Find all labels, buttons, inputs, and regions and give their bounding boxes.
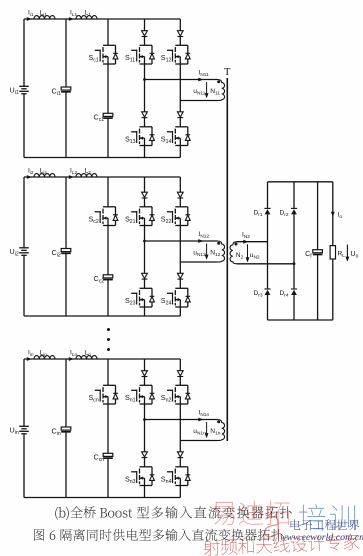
wire secondary bottom lead	[237, 263, 294, 265]
diode series D-n4	[177, 452, 183, 457]
wire S23 source to bottom rail	[144, 307, 146, 316]
wire S_c1 drain	[107, 19, 109, 45]
wire S_c2 source to C_c2	[107, 226, 109, 275]
inductor L_n	[76, 356, 97, 359]
diode D_r3	[264, 288, 270, 290]
current arrow I_i2	[27, 175, 32, 179]
wire top rail stage 2	[24, 176, 180, 178]
wire S21 source to node A2	[144, 226, 146, 242]
watermark slogan red diagonal	[203, 533, 359, 555]
wire S24 source to bottom rail	[179, 307, 181, 316]
current arrow I_N2	[243, 240, 248, 244]
transistor Sn3	[140, 466, 153, 468]
wire leg1 upper stage 2	[144, 177, 146, 192]
transformer core line T	[226, 78, 228, 441]
resistor R_L	[330, 246, 335, 259]
inductor L_in	[34, 356, 55, 359]
ellipsis dots between stages	[107, 328, 110, 331]
wire primary bottom lead stage n	[180, 440, 217, 442]
current arrow I_N1n	[198, 418, 203, 422]
junction secondary to leg D_r2/D_r4	[293, 262, 296, 265]
load resistor column R_L	[332, 182, 334, 246]
transistor Sc1	[103, 44, 116, 46]
watermark logo red letter a	[264, 516, 279, 538]
wire primary top lead stage n	[145, 419, 218, 421]
diode series D-21	[142, 192, 148, 197]
wire S_cn drain	[107, 359, 109, 385]
polarity dot N_11	[217, 80, 220, 83]
inductor L_1	[76, 16, 97, 19]
wire C_in column	[65, 359, 67, 427]
transistor Scn	[103, 384, 116, 386]
transistor S14	[175, 126, 188, 128]
voltage arrow u_N11	[206, 82, 208, 97]
transistor S13	[140, 126, 153, 128]
wire C_cn to bottom rail	[107, 458, 109, 497]
capacitor Cc1	[103, 113, 113, 116]
polarity dot N_2	[235, 243, 238, 246]
capacitor Ci2	[61, 249, 71, 252]
wire S_c2 drain	[107, 177, 109, 207]
wire leg D_r1/D_r3	[267, 182, 269, 209]
wire leg2 upper stage 1	[179, 19, 181, 31]
wire C_c1 to bottom rail	[107, 118, 109, 157]
wire Sn2 source to node Bn	[179, 404, 181, 441]
wire primary top lead stage 2	[145, 240, 218, 242]
wire S12 source to node B1	[179, 64, 181, 101]
diode series D-n1	[142, 371, 148, 376]
transformer primary winding N_12	[218, 241, 225, 262]
wire battery column stage 2	[23, 177, 25, 248]
current arrow I_Ln	[69, 357, 74, 361]
capacitor Cin	[61, 427, 71, 430]
capacitor Ccn	[103, 453, 113, 456]
wire Sn1 source to node An	[144, 404, 146, 420]
wire primary bottom lead stage 1	[180, 100, 217, 102]
wire battery column stage 1	[23, 19, 25, 86]
diode series D-23	[142, 273, 148, 278]
wire battery column stage n	[23, 359, 25, 426]
diode series D-24	[177, 273, 183, 278]
capacitor C_f column	[317, 182, 319, 250]
transistor Sn2	[175, 384, 188, 386]
diode D_r4	[291, 288, 297, 290]
wire leg1 lower stage 2	[144, 241, 146, 273]
wire secondary top lead	[237, 241, 268, 243]
inductor L_i2	[34, 174, 55, 177]
diode series D-n2	[177, 371, 183, 376]
caption line 2	[34, 529, 45, 541]
current arrow I_N12	[198, 239, 203, 243]
transistor S22	[175, 206, 188, 208]
wire primary top lead stage 1	[145, 79, 218, 81]
wire rectifier top rail	[268, 181, 333, 183]
wire rectifier bottom rail	[268, 319, 333, 321]
transistor S23	[140, 287, 153, 289]
wire S22 source to node B2	[179, 226, 181, 263]
watermark logo blue text	[299, 504, 325, 530]
transistor S12	[175, 44, 188, 46]
wire leg D_r2/D_r4	[293, 182, 295, 209]
voltage source Ui2	[19, 247, 29, 249]
wire Sn3 source to bottom rail	[144, 486, 146, 498]
wire leg1 lower stage 1	[144, 80, 146, 112]
diode series D-13	[142, 112, 148, 117]
polarity dot N_12	[217, 242, 220, 245]
wire leg2 lower stage 1	[179, 101, 181, 112]
caption line 1	[55, 507, 58, 520]
wire leg1 upper stage n	[144, 359, 146, 371]
capacitor Ci1	[61, 87, 71, 90]
transformer secondary winding N_2	[230, 242, 237, 264]
wire S14 source to bottom rail	[179, 146, 181, 158]
wire Sn4 source to bottom rail	[179, 486, 181, 498]
wire primary bottom lead stage 2	[180, 261, 217, 263]
wire S_cn source to C_cn	[107, 404, 109, 453]
current arrow I_o	[331, 212, 335, 217]
node An junction	[143, 418, 146, 421]
voltage arrow u_N1n	[206, 422, 208, 437]
diode series D-14	[177, 112, 183, 117]
current arrow I_L1	[69, 17, 74, 21]
wire S13 source to bottom rail	[144, 146, 146, 158]
transistor Sc2	[103, 206, 116, 208]
diode series D-12	[177, 31, 183, 36]
capacitor Cf	[313, 250, 323, 253]
transistor Sn4	[175, 466, 188, 468]
transformer primary winding N_11	[218, 80, 225, 101]
inductor L_i1	[34, 16, 55, 19]
diode series D-11	[142, 31, 148, 36]
svg-text:T: T	[224, 67, 231, 78]
watermark logo red text	[212, 502, 234, 525]
voltage source Uin	[19, 425, 29, 427]
current arrow I_in	[27, 357, 32, 361]
voltage source Ui1	[19, 85, 29, 87]
voltage arrow u_N12	[206, 244, 208, 259]
transistor S21	[140, 206, 153, 208]
transformer primary winding N_1n	[218, 420, 225, 441]
wire leg1 upper stage 1	[144, 19, 146, 31]
transistor Sn1	[140, 384, 153, 386]
diode series D-n3	[142, 452, 148, 457]
voltage arrow U_o	[346, 245, 348, 260]
current arrow I_L2	[69, 175, 74, 179]
wire leg2 lower stage n	[179, 441, 181, 452]
diode series D-22	[177, 192, 183, 197]
wire C_c2 to bottom rail	[107, 280, 109, 316]
current arrow I_N11	[198, 78, 203, 82]
wire C_i1 column	[65, 19, 67, 87]
wire top rail stage 1	[24, 18, 180, 20]
current arrow I_i1	[27, 17, 32, 21]
watermark eeworld name	[291, 519, 301, 529]
wire bottom rail stage 2	[24, 315, 180, 317]
wire leg2 lower stage 2	[179, 262, 181, 273]
transistor S24	[175, 287, 188, 289]
wire leg2 upper stage n	[179, 359, 181, 371]
inductor L_2	[76, 174, 97, 177]
wire leg1 lower stage n	[144, 420, 146, 452]
polarity dot N_1n	[217, 420, 220, 423]
wire leg2 upper stage 2	[179, 177, 181, 192]
wire bottom rail stage 1	[24, 157, 180, 159]
voltage arrow u_N2	[247, 244, 249, 261]
wire bottom rail stage n	[24, 497, 180, 499]
diode D_r1	[264, 207, 270, 209]
node A1 junction	[143, 78, 146, 81]
node A2 junction	[143, 240, 146, 243]
transistor S11	[140, 44, 153, 46]
wire S_c1 source to C_c1	[107, 64, 109, 113]
wire C_i2 column	[65, 177, 67, 249]
diode D_r2	[291, 207, 297, 209]
capacitor Cc2	[103, 275, 113, 278]
wire S11 source to node A1	[144, 64, 146, 80]
wire top rail stage n	[24, 358, 180, 360]
